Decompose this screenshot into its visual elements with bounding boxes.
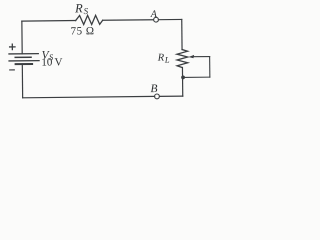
plus sign <box>10 44 15 49</box>
svg-text:10 V: 10 V <box>41 56 62 68</box>
wire top right <box>158 18 181 20</box>
wire loop bottom horizontal <box>183 76 210 78</box>
svg-text:R: R <box>74 1 83 15</box>
node B <box>155 94 160 99</box>
potentiometer RL zigzag <box>177 49 188 67</box>
wire left vertical upper <box>21 21 23 54</box>
svg-text:S: S <box>83 6 88 16</box>
node A <box>154 17 159 22</box>
svg-text:75 Ω: 75 Ω <box>71 25 95 37</box>
junction dot <box>181 75 185 79</box>
wire right vertical upper <box>181 19 183 49</box>
wire right vertical lower <box>181 68 183 97</box>
wire top middle <box>103 19 154 22</box>
wire bottom left segment <box>23 96 155 97</box>
wire loop right vertical <box>209 57 211 78</box>
resistor RS zigzag <box>76 15 103 24</box>
wire left vertical lower <box>21 64 23 98</box>
wire top-left horizontal <box>22 20 76 23</box>
wire bottom right segment <box>159 95 182 97</box>
svg-text:R: R <box>157 53 165 64</box>
minus sign <box>10 69 14 71</box>
svg-text:B: B <box>150 83 157 95</box>
wiper arrow <box>189 55 210 59</box>
svg-text:L: L <box>164 55 170 65</box>
svg-text:A: A <box>150 9 158 20</box>
battery VS plates <box>9 54 39 65</box>
